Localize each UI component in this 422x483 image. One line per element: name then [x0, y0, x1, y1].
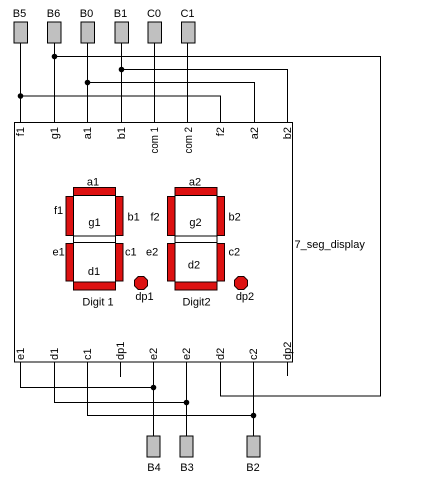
digit1 upper body [74, 196, 116, 237]
svg-text:dp1: dp1 [115, 342, 127, 360]
svg-text:b2: b2 [282, 127, 294, 139]
junction dot d1/e2b [184, 400, 190, 406]
svg-text:B5: B5 [13, 8, 26, 20]
wire net B0-a2 [88, 83, 255, 123]
wire e1 to junction [21, 362, 154, 388]
wire c2 to B2 [253, 362, 255, 436]
segment g2 area [175, 236, 217, 243]
svg-text:g1: g1 [49, 127, 61, 139]
svg-text:a2: a2 [189, 177, 201, 189]
svg-text:c1: c1 [82, 348, 94, 360]
wire net B5-f2 [21, 96, 221, 122]
connector B4 [147, 436, 160, 457]
junction dot on B5 wire [18, 93, 24, 99]
svg-text:f2: f2 [215, 127, 227, 136]
segment g1 area [74, 236, 116, 243]
svg-text:B3: B3 [180, 462, 193, 474]
svg-text:Digit 1: Digit 1 [82, 297, 113, 309]
svg-text:7_seg_display: 7_seg_display [295, 239, 366, 251]
segment b1 [116, 197, 124, 236]
segment a1 [74, 188, 116, 196]
svg-text:e1: e1 [53, 247, 65, 259]
svg-text:d1: d1 [88, 266, 100, 278]
segment a2 [175, 188, 217, 196]
svg-text:c1: c1 [125, 247, 137, 259]
segment d1 [74, 282, 116, 290]
svg-text:f1: f1 [15, 127, 27, 136]
wire C1 to com 2 [187, 43, 189, 122]
segment c1 [116, 244, 124, 282]
connector B5 [14, 22, 28, 43]
svg-text:a1: a1 [82, 127, 94, 139]
decimal point dp1 [135, 277, 148, 290]
decimal point dp2 [235, 277, 248, 290]
svg-text:d1: d1 [49, 348, 61, 360]
junction dot on B1 wire [119, 67, 125, 73]
svg-text:c2: c2 [248, 348, 260, 360]
svg-text:f1: f1 [54, 205, 63, 217]
wire e2 to B4 [153, 362, 155, 436]
svg-text:Digit2: Digit2 [182, 297, 210, 309]
wire dp2 stub [287, 362, 289, 376]
svg-text:B6: B6 [47, 8, 60, 20]
svg-text:e2: e2 [148, 348, 160, 360]
segment f2 [168, 197, 176, 236]
wire d1 to junction [55, 362, 187, 403]
junction dot e1/e2 [151, 385, 157, 391]
connector C1 [182, 22, 196, 43]
digit1 lower body [74, 243, 116, 283]
svg-text:dp2: dp2 [282, 342, 294, 360]
segment f1 [66, 197, 74, 236]
svg-text:d2: d2 [215, 348, 227, 360]
wire B5 to f1 [20, 43, 22, 122]
svg-text:e1: e1 [15, 348, 27, 360]
svg-text:c2: c2 [229, 247, 241, 259]
svg-text:e2: e2 [146, 247, 158, 259]
svg-text:a1: a1 [87, 177, 99, 189]
wire C0 to com 1 [154, 43, 156, 122]
svg-text:d2: d2 [188, 260, 200, 272]
svg-text:B1: B1 [114, 8, 127, 20]
svg-text:B2: B2 [246, 462, 259, 474]
svg-text:f2: f2 [151, 212, 160, 224]
svg-text:B4: B4 [147, 462, 160, 474]
connector B3 [180, 436, 193, 457]
segment c2 [217, 244, 225, 282]
junction dot on B0 wire [85, 80, 91, 86]
wire B0 to a1 [87, 43, 89, 122]
svg-text:dp1: dp1 [135, 291, 153, 303]
connector C0 [148, 22, 162, 43]
component box 7_seg_display [15, 123, 293, 363]
digit2 upper body [175, 196, 217, 237]
segment b2 [217, 197, 225, 236]
wire net B6-d2 horizontal top [55, 57, 381, 397]
connector B1 [115, 22, 129, 43]
junction dot c1/c2 [251, 413, 257, 419]
svg-text:C1: C1 [180, 8, 194, 20]
svg-text:B0: B0 [80, 8, 93, 20]
svg-text:b1: b1 [128, 212, 140, 224]
segment d2 [175, 282, 217, 290]
svg-text:b1: b1 [116, 127, 128, 139]
svg-text:com 2: com 2 [183, 127, 195, 154]
connector B0 [81, 22, 95, 43]
connector B6 [48, 22, 62, 43]
junction dot on B6 wire [52, 54, 58, 60]
wire c1 to junction [88, 362, 254, 416]
connector B2 [247, 436, 260, 457]
wire net B1-b2 [122, 70, 288, 123]
segment e1 [66, 244, 74, 282]
svg-text:com 1: com 1 [149, 127, 161, 154]
svg-text:dp2: dp2 [236, 291, 254, 303]
segment e2 [168, 244, 176, 282]
svg-text:g2: g2 [189, 217, 201, 229]
svg-text:C0: C0 [147, 8, 161, 20]
wire e2b to B3 [186, 362, 188, 436]
wire B1 to b1 [121, 43, 123, 122]
svg-text:g1: g1 [88, 217, 100, 229]
svg-text:a2: a2 [249, 127, 261, 139]
wire dp1 stub [120, 362, 122, 377]
wire B6 to g1 [54, 43, 56, 122]
digit2 lower body [175, 243, 217, 283]
svg-text:e2: e2 [181, 348, 193, 360]
svg-text:b2: b2 [229, 212, 241, 224]
